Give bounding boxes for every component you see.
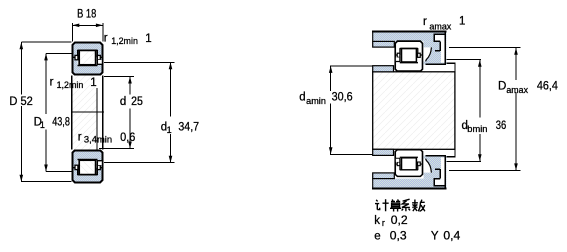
- svg-text:D 52: D 52: [9, 96, 32, 108]
- svg-text:d: d: [299, 92, 305, 104]
- dimension Da: [449, 48, 521, 171]
- dimension D1: [46, 53, 71, 171]
- bearing upper section (blue): [72, 43, 103, 75]
- shaft step (top right): [447, 63, 455, 72]
- svg-text:43,8: 43,8: [52, 117, 70, 129]
- bore cylinder (hatched area between sections): [73, 76, 97, 150]
- svg-text:k: k: [374, 215, 380, 227]
- svg-text:r: r: [78, 132, 82, 144]
- svg-text:r: r: [423, 16, 427, 28]
- svg-text:0,3: 0,3: [390, 230, 407, 242]
- bearing upper section (white, right figure): [395, 41, 423, 71]
- wire: bore right edge: [102, 76, 104, 150]
- ra relief recess (white): [435, 35, 445, 41]
- svg-text:0,6: 0,6: [120, 132, 135, 144]
- svg-text:1: 1: [459, 16, 465, 28]
- svg-text:30,6: 30,6: [332, 91, 353, 103]
- housing band fill: [373, 32, 447, 42]
- svg-text:34,7: 34,7: [178, 121, 199, 133]
- housing band top line: [372, 31, 446, 33]
- housing block fill: [424, 41, 447, 64]
- housing block bottom line: [426, 63, 447, 65]
- svg-text:1: 1: [90, 77, 96, 89]
- shaft shoulder (top): [373, 66, 394, 72]
- svg-text:36: 36: [496, 120, 507, 132]
- svg-text:amax: amax: [429, 21, 451, 31]
- ra relief groove: [433, 34, 444, 51]
- svg-text:25: 25: [131, 96, 143, 108]
- dimension db: [446, 60, 481, 162]
- glyph suan: [390, 199, 401, 211]
- glyph shu: [412, 200, 425, 212]
- dimension D: [21, 42, 72, 182]
- svg-text:0,4: 0,4: [443, 230, 461, 242]
- shaft step (bottom right): [447, 149, 455, 156]
- svg-text:B 18: B 18: [77, 8, 96, 20]
- svg-text:0,2: 0,2: [391, 215, 408, 227]
- svg-text:1: 1: [40, 120, 45, 130]
- svg-text:r: r: [382, 218, 385, 228]
- dimension d: [99, 77, 134, 149]
- wire: bore left edge: [71, 76, 73, 150]
- svg-text:amax: amax: [506, 85, 528, 95]
- shaft body: [373, 72, 455, 150]
- ra fillet curve: [426, 47, 432, 61]
- svg-text:1,2min: 1,2min: [111, 36, 138, 46]
- svg-text:bmin: bmin: [467, 124, 487, 134]
- svg-text:D: D: [498, 80, 506, 92]
- glyph xi: [402, 199, 411, 211]
- housing band left edge: [372, 31, 374, 41]
- svg-text:d: d: [120, 96, 126, 108]
- svg-text:3,4min: 3,4min: [84, 135, 112, 145]
- housing block right face: [444, 31, 446, 65]
- svg-text:r: r: [50, 77, 54, 89]
- wire: leader vertical from label 1: [96, 88, 98, 149]
- dimension d1: [104, 62, 175, 162]
- housing parts top: [372, 31, 446, 65]
- glyph ji: [375, 199, 389, 211]
- svg-text:e: e: [374, 230, 380, 242]
- svg-text:1: 1: [167, 125, 172, 135]
- svg-text:1: 1: [145, 33, 151, 45]
- bearing lower section (blue, mirrored): [72, 151, 103, 183]
- dimension B: [72, 23, 103, 42]
- wire: mid horizontal bar: [71, 111, 104, 113]
- svg-text:1,2min: 1,2min: [57, 80, 84, 90]
- housing shoulder strip: [373, 41, 395, 47]
- bearing lower section (white, right figure): [395, 150, 423, 177]
- ra fillet bulge (white): [424, 47, 432, 61]
- shaft shoulder (bottom): [373, 149, 394, 155]
- heading 计算系数 (drawn strokes): [375, 199, 425, 211]
- svg-text:amin: amin: [306, 96, 326, 106]
- dimension da: [330, 66, 372, 154]
- svg-text:Y: Y: [431, 230, 439, 242]
- svg-text:46,4: 46,4: [537, 80, 559, 92]
- svg-text:r: r: [104, 33, 108, 45]
- housing parts bottom (mirror): [372, 155, 446, 189]
